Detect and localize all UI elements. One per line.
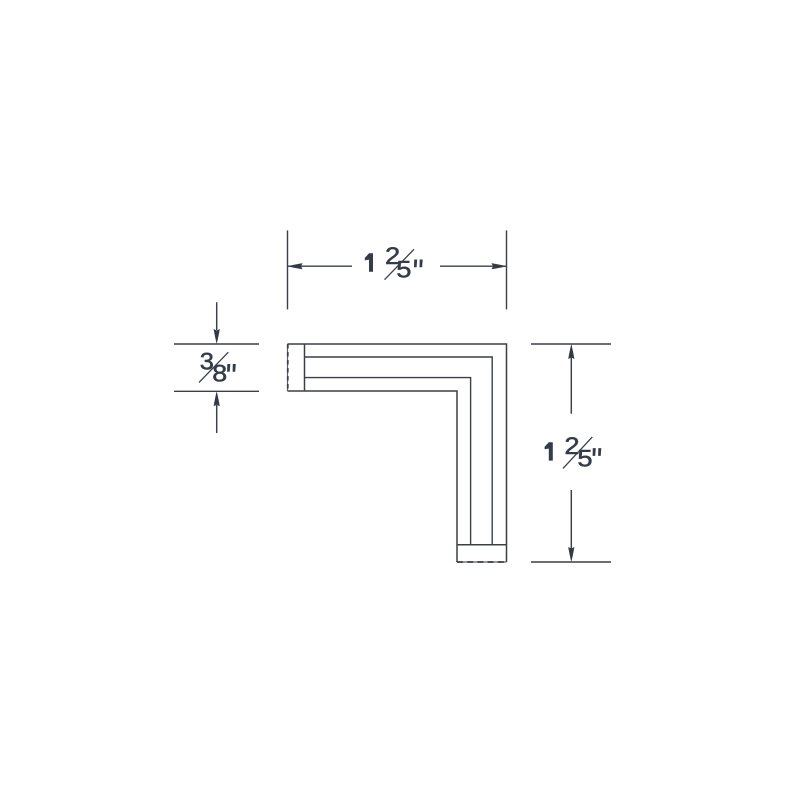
svg-text:8: 8	[212, 361, 227, 387]
svg-text:5: 5	[396, 257, 411, 283]
